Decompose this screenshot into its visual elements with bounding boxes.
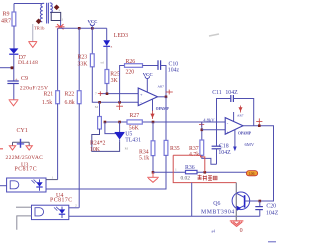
rail wire R36 to label [197,171,246,173]
svg-text:C18: C18 [219,144,229,150]
junction dot R25 tap [106,92,109,95]
capacitor C9 [7,68,48,100]
svg-text:1.5k: 1.5k [42,100,52,106]
svg-text:1: 1 [52,175,54,179]
resistor R27 [127,113,142,131]
TL431 U5 [115,122,141,150]
svg-text:C9: C9 [21,76,28,82]
wire U3 left pin [0,185,7,187]
wire R37 bottom jog [202,155,217,164]
junction diamond node A [54,4,60,10]
junction dot R34 tap on wire E [152,121,155,124]
no-ERC cross on wire E at R37 [199,122,204,127]
wire top from R9 to transformer [14,3,43,5]
resistor R37 [189,122,204,158]
junction dot base/C20 [259,200,262,203]
svg-text:222M/250VAC: 222M/250VAC [6,155,44,161]
power pin wire U2 V- with blue arrow [233,130,237,152]
no-ERC cross at U1 output [166,90,173,95]
svg-text:104Z: 104Z [218,150,231,156]
svg-text:C10: C10 [169,61,179,67]
red wire vertical to Q6 emitter net [191,183,193,217]
svg-text:R9: R9 [3,12,10,18]
no-ERC cross [98,91,103,96]
resistor R34 [139,122,155,172]
svg-text:3K: 3K [111,78,119,84]
svg-text:LED3: LED3 [114,33,128,39]
wire bus to R22 [78,28,80,90]
resistor R35 in output line [164,140,180,155]
svg-text:R21: R21 [44,92,54,98]
red stub at left edge [0,148,3,150]
svg-text:R24*2: R24*2 [90,141,106,147]
wire left at node D7/C9 [0,67,14,69]
junction dot op-amp U2 plus tap [201,129,204,132]
svg-text:0.02: 0.02 [181,176,191,182]
svg-text:2: 2 [75,204,77,208]
svg-text:a4: a4 [212,230,216,234]
no-ERC cross at U2 output [256,118,262,124]
ground below C9 [9,100,19,106]
wire U3 pin1 to R21 line [46,179,58,181]
svg-text:C20: C20 [266,203,276,209]
feedback wire up to R26 [120,66,125,103]
svg-text:5.1k: 5.1k [139,156,149,162]
rail wire to R36 [153,171,186,173]
svg-text:1: 1 [62,18,64,22]
svg-text:R25: R25 [110,71,120,77]
resistor R36 [181,165,198,181]
faint smudge artifact [209,34,219,36]
resistor R24 [90,102,120,153]
svg-text:6MV: 6MV [245,142,255,147]
wire output chain down and left to U3 pin3 [46,155,166,189]
svg-text:sd: sd [101,61,104,65]
wire to U2 plus input [202,129,225,131]
diode D7 [9,48,38,67]
transformer T1 right winding [50,3,53,13]
svg-text:TL431: TL431 [125,138,141,144]
wire op-amp U1 plus input [100,93,138,95]
svg-text:R35: R35 [170,146,180,152]
op-amp U1 [138,85,169,112]
power port VCC [88,19,98,28]
fuse X marker (red) on bus start [56,24,65,29]
transformer T1 core [46,3,48,24]
svg-text:7: 7 [95,92,97,96]
red net wires near R36 [173,155,236,182]
junction diamond node B [36,18,42,24]
junction dot [11,66,14,69]
svg-text:Q6: Q6 [213,201,220,207]
svg-text:AR7: AR7 [237,114,244,118]
optocoupler U3 [7,162,46,192]
optocoupler U4 [32,193,73,219]
svg-text:L06: L06 [249,172,255,176]
wire bus corner to LED3 [106,28,108,40]
junction dot red-net tap [204,171,207,174]
winding 1b rectangle [51,12,61,20]
ground below Q6 [230,221,244,226]
no-ERC cross below feedback tap [116,103,123,110]
wire U1 output down to wire E and R35 [165,97,167,141]
svg-text:OPAMP: OPAMP [156,107,170,111]
svg-text:R27: R27 [130,113,140,119]
ground stem from transformer [32,24,34,42]
svg-text:PC817C: PC817C [15,166,38,172]
junction dot rail left [152,171,155,174]
wire bus to R21 (down from X) [57,28,59,90]
power pin wire U2 V+ [233,112,235,121]
wire bus to R23 [91,28,93,54]
red power arrow U1 V- [151,111,154,120]
TL431 ref wire [105,122,116,134]
power pin wire U1 V- [152,99,154,111]
svg-text:56K: 56K [129,126,140,132]
capacitor C11 [212,90,254,126]
transistor Q6 [201,183,250,221]
transformer T1 left winding [40,3,44,21]
svg-text:VCC: VCC [88,19,98,24]
resistor R9 [1,4,16,49]
svg-text:0: 0 [240,228,243,234]
svg-text:10K: 10K [90,147,101,153]
bus wire VCC rail [59,27,107,29]
capacitor C18 [212,122,231,164]
wire U4 left pin lower with hook down [17,216,32,230]
svg-text:33K: 33K [78,62,89,68]
svg-text:4R7: 4R7 [1,19,11,25]
resistor R23 [78,54,139,103]
svg-text:MMBT3904: MMBT3904 [201,210,235,216]
svg-text:OPAMP: OPAMP [238,131,252,135]
svg-text:220: 220 [126,69,135,75]
svg-text:4.8kV: 4.8kV [203,117,215,122]
capacitor C20 [255,201,278,217]
svg-text:R22: R22 [65,91,75,97]
tiny dash bottom right [268,241,276,243]
svg-text:DL4148: DL4148 [18,60,38,66]
svg-text:104Z: 104Z [225,90,238,96]
op-amp U2 [225,114,252,136]
junction dot TL431 cathode drop [118,121,121,124]
wire U1 output [158,96,167,98]
svg-text:PC817C: PC817C [50,197,73,203]
capacitor CY1 [6,128,44,161]
emitter run wire [69,215,260,217]
junction dot R23/VCC tap [91,27,94,30]
svg-text:CY1: CY1 [17,128,28,134]
svg-text:R37: R37 [189,146,199,152]
ground below R34 [147,172,159,182]
resistor R26 [125,59,159,75]
wire U2 output [243,126,274,201]
ground (transformer shield) [28,42,37,48]
junction dot TL431 ref [104,121,107,124]
base wire Q6 [245,200,260,202]
wire U4 left pin upper [16,206,32,208]
svg-text:R26: R26 [126,59,136,65]
svg-text:C11: C11 [212,90,222,96]
junction dot feedback tap [118,101,121,104]
svg-text:104Z: 104Z [266,211,279,217]
resistor R25 [105,70,120,94]
label 检测电阻 (sense resistor) [198,175,217,181]
wire from winding rect down to bus [60,21,62,28]
resistor R21 [42,91,60,180]
resistor R22 [65,91,82,208]
junction dot U2 output [258,124,261,127]
junction dot R22 tap [78,27,81,30]
net label oval LD6 [246,171,257,176]
svg-text:R36: R36 [185,165,195,171]
red power arrow U2 V+ [239,106,242,113]
svg-text:R23: R23 [78,55,88,61]
junction dot U1 output [165,96,168,99]
svg-text:+: + [227,129,230,134]
svg-text:VCC: VCC [143,72,153,77]
svg-text:104z: 104z [168,68,180,74]
svg-text:6.8k: 6.8k [65,100,75,106]
svg-text:TR1b: TR1b [34,25,45,30]
wire U4 pin4 to R22 line [69,207,79,209]
LED LED3 [103,33,128,70]
svg-text:AR7: AR7 [158,85,165,89]
wire E left segment with TL431 top [105,121,225,123]
svg-text:1: 1 [175,168,177,172]
capacitor C10 [158,60,179,97]
junction dot wire D R24 tap [98,101,101,104]
power port VCC op-amp U1 [143,72,153,93]
